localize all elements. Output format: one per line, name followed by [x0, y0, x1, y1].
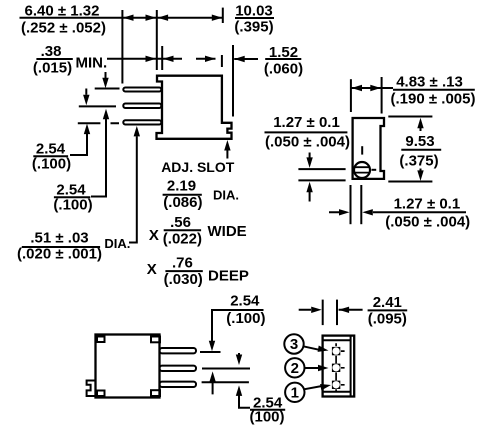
bottom 1.27 tick left — [350, 185, 352, 224]
pin 1 (side view top lead) — [123, 88, 161, 92]
svg-text:2.41: 2.41 — [373, 294, 402, 311]
rear pin 1 — [160, 348, 197, 353]
arrowhead 4.83 right — [370, 85, 381, 91]
svg-text:(.100): (.100) — [226, 310, 265, 327]
left 1.27 ext line top — [298, 168, 345, 170]
fraction bar 2.54 first — [33, 155, 68, 157]
arrowhead 2.41 left — [339, 307, 350, 313]
svg-text:1.27 ± 0.1: 1.27 ± 0.1 — [273, 114, 340, 131]
svg-text:(.050 ± .004): (.050 ± .004) — [265, 134, 350, 151]
9.53 extension top — [388, 116, 432, 118]
rear pin ext line 3 — [202, 381, 249, 383]
svg-text:1.52: 1.52 — [269, 44, 298, 61]
svg-text:(.030): (.030) — [164, 271, 203, 288]
arrowhead MIN left — [163, 56, 174, 62]
circled 1 — [285, 383, 304, 402]
arrowhead pin2 up — [103, 109, 109, 120]
svg-text:1: 1 — [291, 385, 299, 402]
rear 2.54 bottom fraction bar — [250, 409, 285, 411]
arrowhead front pin2 — [318, 365, 329, 371]
arrowhead pin2 down — [83, 95, 89, 106]
fraction bar .76 — [165, 270, 202, 272]
9.53 fraction bar — [401, 149, 441, 151]
rear corner post TL — [97, 337, 105, 343]
arrowhead 9.53 down — [417, 170, 423, 181]
fraction bar .38 — [36, 58, 72, 60]
arrowhead 10.03 right — [212, 15, 223, 21]
leader 2.54 first — [70, 134, 87, 155]
rear pin ext line 1 — [200, 351, 221, 353]
arrowhead 10.03 left — [158, 15, 169, 21]
svg-text:2: 2 — [291, 360, 299, 377]
extension tick tab right — [232, 45, 234, 117]
svg-text:.51 ± .03: .51 ± .03 — [30, 229, 88, 246]
front view top cap line — [323, 339, 351, 341]
svg-text:DIA.: DIA. — [213, 188, 239, 203]
front view body — [323, 336, 355, 397]
svg-text:.76: .76 — [172, 254, 193, 271]
front view bottom cap line — [323, 391, 351, 393]
svg-text:2.54: 2.54 — [230, 292, 260, 309]
dimension row 1 line (6.40 and 10.03) — [20, 17, 224, 19]
front pin 2 symbol — [332, 364, 340, 372]
leader from 2 — [305, 367, 322, 369]
arrow shaft pin1 top — [105, 72, 107, 79]
front pin 1 symbol — [332, 347, 340, 355]
rear view body — [96, 335, 160, 398]
9.53 extension bottom — [388, 181, 432, 183]
svg-text:(.100): (.100) — [32, 156, 71, 173]
arrowhead DIA lead — [134, 126, 140, 136]
9.53 dim vertical segments — [420, 128, 422, 172]
screw center mark vertical — [361, 146, 363, 154]
extension tick body left — [156, 10, 158, 70]
4.83 tick left — [350, 79, 352, 112]
leader DIA .51 — [129, 136, 137, 242]
svg-text:DIA.: DIA. — [104, 236, 130, 251]
fraction bar 2.19 — [163, 194, 202, 196]
2.41 dim line and bar — [299, 309, 408, 312]
svg-text:DEEP: DEEP — [208, 268, 249, 285]
svg-text:WIDE: WIDE — [208, 223, 247, 240]
dimension row 2 line (MIN and 1.52) — [107, 58, 216, 60]
arrowhead front pin3 — [318, 346, 329, 354]
arrowhead ADJ SLOT — [224, 140, 230, 151]
svg-text:.56: .56 — [170, 214, 191, 231]
rear corner post BL — [97, 391, 105, 397]
front pin center marks — [336, 343, 345, 391]
rear pin 3 — [160, 382, 197, 387]
svg-text:(.060): (.060) — [264, 61, 303, 78]
arrowhead 1.52 outer — [234, 56, 245, 62]
front pin 3 symbol — [332, 381, 340, 389]
svg-text:X: X — [149, 227, 159, 244]
svg-text:(.252 ± .052): (.252 ± .052) — [21, 20, 106, 37]
svg-text:(100): (100) — [249, 409, 284, 426]
4.83 tick right — [381, 77, 383, 114]
rear corner post BR — [151, 390, 160, 396]
arrowhead pin3 up — [84, 124, 90, 135]
svg-text:(.022): (.022) — [163, 230, 202, 247]
arrowhead 9.53 up — [417, 118, 423, 129]
arrowhead rear up B — [236, 385, 242, 396]
svg-text:X: X — [147, 261, 157, 278]
left 1.27 arrow shafts — [309, 153, 311, 202]
svg-text:9.53: 9.53 — [405, 133, 434, 150]
arrowhead MIN right — [146, 56, 157, 62]
svg-text:.38: .38 — [41, 43, 62, 60]
extension tick body right top — [222, 8, 224, 23]
leader ADJ SLOT — [226, 150, 228, 159]
svg-text:ADJ. SLOT: ADJ. SLOT — [161, 159, 235, 175]
extension tick pin tips — [121, 10, 123, 84]
arrowhead 4.83 left — [352, 85, 363, 91]
arrowhead left1.27 down — [306, 157, 312, 168]
side view body (top-left trimmer outline) — [157, 76, 232, 139]
arrowhead rear down A — [209, 341, 215, 352]
1.52 shaft and fraction bar — [234, 58, 301, 60]
2.41 tick left — [322, 300, 324, 326]
screw circle — [354, 162, 370, 178]
arrowhead 1.52 inner — [205, 56, 216, 62]
arrowhead pin1 down — [102, 78, 108, 89]
arrowhead left1.27 up — [306, 182, 312, 193]
left 1.27 fraction bar — [265, 131, 348, 133]
rear adjust tab — [87, 381, 96, 397]
bottom 1.27 tick right — [360, 185, 362, 224]
arrowhead bottom1.27 right — [339, 209, 350, 215]
fraction bar 2.54 second — [54, 196, 90, 198]
arrow shaft pin2 top — [85, 89, 87, 95]
screw slot lines — [355, 167, 370, 172]
fraction bar 10.03 — [235, 17, 274, 19]
pin 3 (side view bottom lead) — [123, 120, 161, 124]
svg-text:(.050 ± .004): (.050 ± .004) — [385, 214, 470, 231]
front pin white holes — [332, 347, 339, 354]
4.83 fraction bar — [393, 89, 475, 91]
extension tick step — [161, 46, 163, 70]
leader from 1 — [304, 386, 322, 389]
fraction bar .56 — [164, 229, 201, 231]
arrowhead bottom1.27 left — [362, 209, 373, 215]
svg-text:(.395): (.395) — [234, 19, 273, 36]
svg-text:(.015): (.015) — [33, 60, 72, 77]
screw center mark horizontal — [372, 169, 377, 171]
arrowhead 6.40 left — [123, 15, 134, 21]
arrowhead rear up A — [209, 371, 215, 382]
front view inner right line — [350, 337, 352, 396]
leader 2.54 second — [91, 119, 106, 197]
svg-text:6.40 ± 1.32: 6.40 ± 1.32 — [25, 3, 100, 20]
pin dim line 1 — [95, 88, 120, 90]
circled 2 — [285, 358, 304, 377]
svg-text:4.83 ± .13: 4.83 ± .13 — [396, 74, 463, 91]
svg-text:(.020 ± .001): (.020 ± .001) — [17, 246, 102, 263]
svg-text:2.19: 2.19 — [167, 177, 196, 194]
svg-text:(.100): (.100) — [53, 197, 92, 214]
top right view body outline — [353, 118, 384, 179]
circled 3 — [284, 334, 303, 353]
svg-text:(.086): (.086) — [163, 194, 202, 211]
4.83 dim line — [352, 87, 394, 89]
bottom 1.27 dim line and bar — [329, 211, 466, 213]
svg-text:10.03: 10.03 — [235, 2, 273, 19]
rear arrow shafts — [213, 353, 250, 408]
svg-text:MIN.: MIN. — [76, 54, 108, 71]
arrowhead front pin1 — [320, 382, 332, 390]
leader from 3 — [303, 346, 321, 350]
pin 2 (side view middle lead) — [123, 104, 161, 109]
rear 2.54 leader top — [212, 310, 264, 341]
extension tick body right mid — [221, 55, 223, 67]
rear corner post TR — [151, 337, 160, 343]
pin dim line 2 — [79, 105, 116, 107]
svg-text:(.375): (.375) — [399, 153, 438, 170]
arrowhead rear down B — [236, 355, 242, 366]
svg-text:1.27 ± 0.1: 1.27 ± 0.1 — [394, 196, 461, 213]
arrowhead 2.41 right — [311, 307, 322, 313]
fraction bar .51 — [22, 246, 100, 248]
svg-text:(.095): (.095) — [368, 311, 407, 328]
arrowhead 6.40 right — [146, 15, 157, 21]
rear pin 2 — [160, 366, 197, 371]
2.41 tick right — [336, 300, 338, 326]
rear pin ext line 2 — [202, 368, 250, 370]
svg-text:(.190 ± .005): (.190 ± .005) — [391, 91, 476, 108]
svg-text:3: 3 — [290, 336, 298, 353]
left 1.27 ext line bottom — [298, 179, 345, 181]
pin dim line 3 — [78, 122, 119, 124]
